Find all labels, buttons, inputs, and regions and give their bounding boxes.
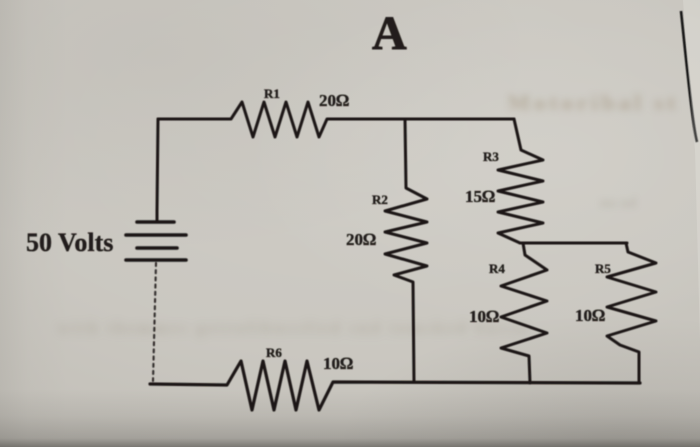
svg-text:10Ω: 10Ω (469, 307, 499, 326)
svg-text:15Ω: 15Ω (465, 187, 495, 206)
svg-text:R2: R2 (372, 192, 388, 207)
svg-text:R1: R1 (264, 86, 280, 101)
svg-text:20Ω: 20Ω (346, 230, 376, 249)
svg-text:A: A (372, 7, 407, 60)
svg-text:R4: R4 (489, 261, 505, 276)
svg-text:50 Volts: 50 Volts (26, 228, 113, 257)
svg-text:10Ω: 10Ω (575, 306, 605, 325)
svg-text:R3: R3 (483, 149, 499, 164)
svg-text:20Ω: 20Ω (319, 91, 349, 110)
svg-text:R6: R6 (266, 345, 282, 360)
svg-text:R5: R5 (595, 261, 611, 276)
svg-text:10Ω: 10Ω (323, 354, 353, 373)
